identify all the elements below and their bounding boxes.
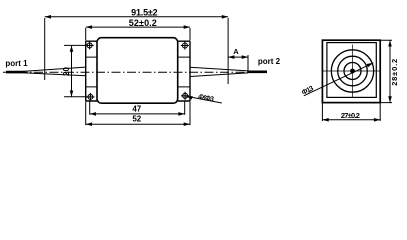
svg-text:27±0.2: 27±0.2: [341, 111, 360, 120]
svg-text:91.5±2: 91.5±2: [131, 7, 158, 17]
svg-text:20: 20: [62, 67, 71, 76]
svg-text:52: 52: [132, 114, 141, 123]
svg-text:A: A: [233, 47, 239, 56]
svg-text:4XΦ3: 4XΦ3: [197, 94, 214, 104]
svg-text:port 1: port 1: [5, 59, 28, 68]
svg-text:28±0.2: 28±0.2: [390, 59, 399, 86]
svg-text:52±0.2: 52±0.2: [129, 18, 157, 28]
svg-text:47: 47: [132, 105, 141, 114]
svg-text:port 2: port 2: [258, 57, 281, 66]
svg-text:Φ13: Φ13: [301, 85, 315, 96]
